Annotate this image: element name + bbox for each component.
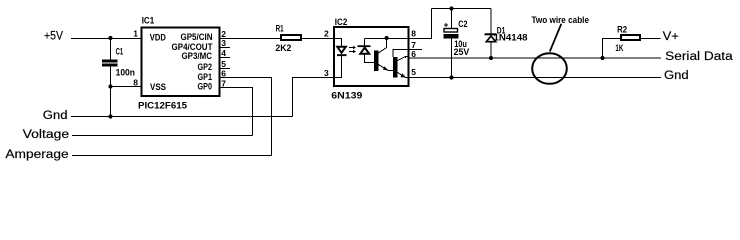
cable pointer line [550, 24, 562, 52]
capacitor C2 bottom plate [444, 34, 459, 39]
photodiode bar [358, 45, 371, 47]
wire serial data line pin6 [409, 57, 662, 59]
wire IC1 pin4 stub [221, 57, 231, 59]
wire Q2 base to pin7 [393, 50, 409, 58]
svg-text:VDD: VDD [150, 33, 166, 44]
junction dot internal rail [385, 36, 389, 40]
wire IC1 pin3 stub [221, 47, 231, 49]
svg-text:Gnd: Gnd [664, 70, 689, 82]
junction dot C2 on Gnd rail [449, 75, 453, 79]
wire IC2 pin8 riser [409, 9, 432, 39]
Q1 emitter arrowhead [383, 66, 388, 70]
wire Q2 emitter to pin5 [398, 73, 409, 78]
optocoupler IC2 box [334, 27, 409, 86]
svg-text:R2: R2 [617, 24, 627, 35]
light arrow upper head [353, 46, 356, 49]
svg-text:25V: 25V [454, 47, 470, 58]
light arrow upper [349, 47, 354, 49]
wire gnd line pin5 [409, 77, 662, 79]
svg-text:4: 4 [221, 48, 226, 58]
svg-text:VSS: VSS [150, 82, 166, 93]
wire IC2 LED cathode to pin3 [334, 56, 341, 78]
IC IC1 box [142, 28, 220, 97]
diode D1 cathode bar [485, 33, 497, 35]
transistor Q2 base bar [393, 57, 398, 78]
wire Q1 collector [379, 39, 387, 54]
wire Q2 collector to pin6 [398, 57, 409, 61]
wire IC1 pin7 GP0 to Voltage riser [221, 88, 253, 136]
wire IC1 pin5 stub [221, 68, 231, 70]
junction dot top rail C2 [449, 6, 453, 10]
wire Voltage rail [72, 135, 253, 137]
svg-text:3: 3 [221, 38, 226, 48]
junction dot +5V/C1 [108, 36, 112, 40]
wire R2 riser from serial line [603, 39, 622, 59]
cable circle symbol [532, 53, 567, 84]
capacitor C1 plate top [102, 60, 118, 63]
svg-text:PIC12F615: PIC12F615 [138, 101, 188, 112]
junction dot Gnd tee [108, 114, 112, 118]
resistor R2 body [621, 35, 640, 40]
svg-text:C2: C2 [458, 19, 467, 30]
svg-text:5: 5 [221, 59, 226, 69]
wire Q1 emitter [379, 65, 394, 71]
svg-text:2: 2 [324, 29, 329, 39]
diode D1 triangle [486, 36, 495, 42]
svg-text:2K2: 2K2 [275, 43, 291, 54]
svg-text:1K: 1K [615, 43, 623, 54]
capacitor C2 top plate [444, 29, 458, 33]
wire VSS pin8 [111, 86, 142, 88]
svg-text:5: 5 [411, 67, 416, 77]
svg-text:3: 3 [324, 68, 329, 78]
wire +5V to VDD [71, 38, 142, 40]
capacitor C1 plate bottom [102, 64, 118, 67]
svg-text:Serial Data: Serial Data [665, 51, 733, 63]
light arrow lower [349, 51, 354, 53]
svg-text:V+: V+ [663, 31, 680, 43]
junction dot R2 on serial line [600, 56, 604, 60]
LED triangle inside IC2 [337, 47, 346, 53]
svg-text:8: 8 [133, 78, 138, 88]
light arrow lower head [353, 50, 356, 53]
diode D1 bottom lead [490, 43, 492, 59]
capacitor C2 top lead [451, 9, 453, 29]
svg-text:+5V: +5V [44, 31, 63, 43]
photodiode triangle [360, 48, 369, 54]
wire IC2 pin7 stub [409, 49, 423, 51]
wire Amperage rail [72, 155, 272, 157]
wire photodiode to internal rail [364, 39, 366, 46]
capacitor C1 lead top [110, 39, 112, 60]
wire photodiode anode down [365, 55, 374, 63]
junction dot VSS tee [108, 84, 112, 88]
wire IC2 internal rail to pin8 [365, 38, 409, 40]
wire top rail [432, 8, 492, 10]
svg-text:1N4148: 1N4148 [494, 33, 528, 44]
wire IC1 pin2 to R1 [221, 38, 282, 40]
resistor R1 body [281, 35, 301, 40]
diode D1 top lead [490, 9, 492, 34]
svg-text:8: 8 [411, 29, 416, 39]
svg-text:IC1: IC1 [142, 16, 155, 27]
svg-text:C1: C1 [116, 46, 124, 57]
svg-text:GP3/MC: GP3/MC [182, 51, 213, 62]
LED cathode bar [337, 54, 347, 56]
wire R2 to V+ [640, 38, 661, 40]
svg-text:Gnd: Gnd [43, 110, 68, 122]
wire R1 to IC2 pin2 [302, 38, 334, 40]
capacitor C2 plus sign [444, 23, 448, 27]
svg-text:Amperage: Amperage [5, 149, 68, 161]
junction dot D1 on serial line [489, 56, 493, 60]
wire IC2 LED anode lead [334, 39, 341, 47]
capacitor C1 lead bottom [110, 67, 112, 117]
wire Gnd left rail [71, 116, 293, 118]
svg-text:100n: 100n [116, 67, 136, 78]
wire IC1 pin6 GP1 to Amperage riser [221, 78, 272, 156]
svg-text:6N139: 6N139 [331, 91, 362, 102]
capacitor C2 bottom lead [451, 39, 453, 78]
svg-text:R1: R1 [276, 23, 284, 34]
svg-text:Voltage: Voltage [23, 129, 70, 141]
wire Gnd riser to IC2 pin3 [293, 78, 335, 117]
svg-text:GP0: GP0 [198, 82, 213, 93]
Q2 emitter arrowhead [401, 73, 406, 77]
svg-text:1: 1 [133, 29, 138, 39]
transistor Q1 base bar [374, 51, 379, 72]
